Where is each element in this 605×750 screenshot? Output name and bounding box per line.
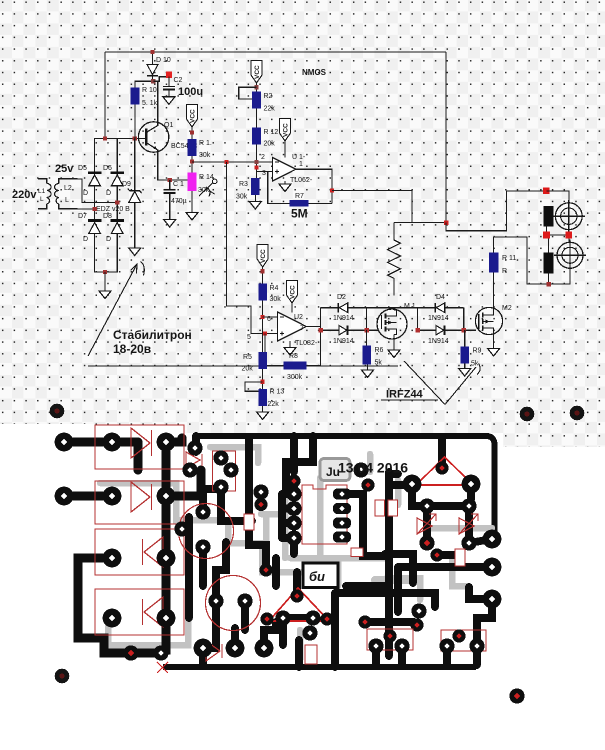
wire magnet2 top <box>548 238 550 252</box>
junction R2 top <box>254 85 258 89</box>
svg-text:18-20в: 18-20в <box>113 342 151 356</box>
ground below U2 <box>284 341 296 355</box>
trace row1 to border <box>166 438 182 442</box>
pad above r4 <box>302 625 317 640</box>
diode rect outline 3 <box>95 529 184 575</box>
pad D2 <box>157 609 176 628</box>
wire magnet2 bottom <box>548 272 550 284</box>
svg-text:30k: 30k <box>199 152 211 159</box>
trace row2 to mid <box>166 470 201 496</box>
svg-text:R7: R7 <box>295 193 304 200</box>
svg-text:U 1-: U 1- <box>292 154 306 161</box>
speaker magnet bar 2 <box>544 252 554 273</box>
IC pad l4 <box>286 530 301 545</box>
wire R2 to R12 <box>256 109 258 128</box>
svg-text:5k: 5k <box>375 360 383 367</box>
trace red pad link <box>437 551 459 559</box>
power resistor zigzag <box>388 223 401 296</box>
trace right mid elbow <box>385 554 413 583</box>
red triangle tr pad c <box>462 475 481 494</box>
mosfet M1 <box>377 309 407 339</box>
diode D6 <box>110 171 124 185</box>
trace arrow1 column <box>423 506 431 543</box>
wire bridge bottom to ground <box>104 272 106 291</box>
PCB <box>0 424 95 434</box>
transformer T1 secondary L2 <box>54 179 77 209</box>
junction speakers mid left <box>543 232 550 239</box>
gray logo drop <box>335 558 342 586</box>
diode symbol row2 <box>131 482 152 512</box>
resistor R4 <box>258 284 267 301</box>
gray staircase left <box>100 483 338 572</box>
svg-text:5. 1k: 5. 1k <box>142 100 158 107</box>
wire D4 right vertical <box>463 308 465 331</box>
trace bottom pad3 riser <box>264 558 276 645</box>
isolated pad bottom right <box>509 688 524 703</box>
svg-text:EDZ v20 B: EDZ v20 B <box>96 206 130 213</box>
wire U2 output <box>306 326 320 328</box>
diode outline rect 1 <box>95 425 184 469</box>
board bottom border <box>163 664 476 670</box>
bottom right rect1 <box>367 629 413 650</box>
red x marker <box>157 662 168 673</box>
pad tm3 <box>213 479 228 494</box>
transistor circle 2 <box>206 576 261 631</box>
wire pin5 from chain <box>227 162 278 334</box>
svg-text:IRFZ44: IRFZ44 <box>386 389 424 401</box>
resistor R9 <box>460 346 469 363</box>
svg-text:20k: 20k <box>242 366 254 373</box>
IC pad r3 <box>333 518 351 529</box>
junction secondary top <box>115 201 119 205</box>
trace small diode pair <box>131 649 161 658</box>
wire D9 vertical <box>134 139 136 191</box>
IC pad l3 <box>286 515 301 530</box>
wire pin3 horizontal <box>257 171 273 173</box>
red diode top mid <box>186 452 202 468</box>
potentiometer R14 <box>188 173 197 192</box>
junction bridge top <box>103 137 107 141</box>
wire R10 bottom <box>134 104 136 138</box>
junction C1 <box>168 178 172 182</box>
wire D2b bottom row <box>321 329 379 331</box>
vcc tag above U1 <box>280 119 291 158</box>
resistor R13 <box>258 389 267 406</box>
diode outline rect 2 <box>95 481 184 524</box>
trace triangle base <box>283 614 313 622</box>
svg-text:NMOS: NMOS <box>302 68 327 77</box>
junction D10 bottom <box>151 79 155 83</box>
wire M1 source <box>393 335 395 351</box>
trace right column chain <box>161 442 166 650</box>
isolated donut top left <box>50 404 65 419</box>
pad below arrow1 <box>419 535 434 550</box>
vcc tag above R4 <box>257 245 268 284</box>
trace row2 feed <box>64 492 112 501</box>
svg-text:L: L <box>40 196 44 203</box>
bridge rectangle wire <box>95 139 118 273</box>
pad tm1 <box>213 450 228 465</box>
op-amp U2 <box>278 312 307 341</box>
pad below arrow2 <box>461 535 476 550</box>
junction R3 top <box>254 165 258 169</box>
big right pads column 1 <box>483 530 502 549</box>
bottom pad row 1 <box>194 639 213 658</box>
pad tr1b <box>174 521 189 536</box>
ground below R14 <box>186 213 198 221</box>
isolated pad right top b <box>570 406 585 421</box>
red arrow diode 2 <box>459 514 478 534</box>
ground below M2 <box>488 349 500 357</box>
svg-text:D5: D5 <box>78 165 87 172</box>
diode D4a <box>435 303 444 313</box>
bottom pad row 3 <box>255 639 274 658</box>
gray right horiz <box>387 578 420 600</box>
small part red rect r3 <box>351 548 363 557</box>
wire feedback pin3 <box>268 172 290 204</box>
trace circle2 left leg <box>203 604 216 648</box>
wire loop around R2 top <box>239 87 257 99</box>
wire secondary top to bridge <box>78 179 118 203</box>
trace border drop left <box>192 436 200 452</box>
red arrow diode 1 <box>417 514 436 534</box>
svg-text:3: 3 <box>262 170 266 177</box>
gray ic top <box>367 454 374 472</box>
trace row1 stub down <box>134 443 143 470</box>
wire D9 to ground <box>134 202 136 248</box>
logo box <box>303 563 338 588</box>
diode D2a <box>338 303 347 313</box>
svg-text:R 10: R 10 <box>142 87 157 94</box>
ground below C2 <box>163 97 175 105</box>
stabilitron arrow <box>88 262 144 357</box>
trace tr right drop <box>467 484 475 500</box>
pad C2 <box>103 549 122 568</box>
IC pad r1 <box>333 489 351 500</box>
grid dots <box>0 0 605 433</box>
junction bottom speaker <box>546 282 551 287</box>
wire collector vertical <box>157 81 159 123</box>
pad B3 <box>157 487 176 506</box>
pad border end <box>187 440 202 455</box>
wire R6 top <box>366 330 368 346</box>
resistor R8 <box>284 361 307 369</box>
trace row1 feed <box>64 438 138 447</box>
diode D5 <box>88 171 102 185</box>
svg-text:R 12: R 12 <box>264 129 279 136</box>
IC pad l1 <box>286 486 301 501</box>
svg-text:D: D <box>106 190 111 197</box>
pad A2 <box>103 433 122 452</box>
svg-text:U2: U2 <box>294 314 303 321</box>
gray bottom mid <box>297 630 304 660</box>
gray right upper <box>395 480 402 505</box>
gray top mid <box>210 447 258 463</box>
gray bottom-layer traces <box>100 447 492 660</box>
diode D4b <box>436 325 445 335</box>
br rect2 pad c <box>452 629 465 642</box>
junction D4 right <box>462 328 466 332</box>
resistor R11 <box>489 252 499 272</box>
trace circle2 right leg <box>241 604 249 630</box>
svg-text:D6: D6 <box>103 165 112 172</box>
svg-text:R 1.: R 1. <box>199 140 212 147</box>
wire D2 right vertical <box>366 308 368 331</box>
pad D1 <box>103 609 122 628</box>
zener D9 <box>128 189 142 203</box>
svg-text:D2: D2 <box>337 294 346 301</box>
junction node x256 <box>254 160 258 164</box>
gray ic vertical <box>317 478 324 558</box>
br rect1 pad a <box>368 638 383 653</box>
resistor R6 <box>362 346 371 365</box>
wire R5 to R13 <box>262 369 264 389</box>
trace bottom pads stubs <box>199 648 207 665</box>
trace bottom T horizontal <box>283 593 435 645</box>
red triangle top right <box>416 457 473 485</box>
svg-text:L1: L1 <box>38 188 46 195</box>
svg-text:R6: R6 <box>375 347 384 354</box>
pad right r1 <box>419 498 434 513</box>
red triangle bottom pad e <box>320 612 333 625</box>
diode D2b <box>339 325 348 335</box>
svg-text:22k: 22k <box>264 106 276 113</box>
bottom pad row 2 <box>226 639 245 658</box>
junction base wire <box>133 137 137 141</box>
main traces <box>64 438 201 653</box>
svg-text:30k: 30k <box>198 187 210 194</box>
resistor R5 <box>258 352 267 369</box>
small diode pad1 <box>123 645 138 660</box>
wire emitter down <box>158 152 192 180</box>
red triangle bottom pad c <box>305 610 320 625</box>
svg-text:M 1: M 1 <box>404 303 416 310</box>
svg-text:20k: 20k <box>264 141 276 148</box>
resistor R10 <box>131 87 140 104</box>
wire D4b bottom row <box>418 329 476 331</box>
diode rect outline 2 <box>95 481 184 524</box>
stub ic pin4 <box>282 538 294 554</box>
wire speakers bottom <box>494 237 570 284</box>
svg-text:22k: 22k <box>268 401 280 408</box>
svg-text:5: 5 <box>247 334 251 341</box>
junction D2 right <box>364 328 368 332</box>
svg-text:1: 1 <box>299 161 303 168</box>
IC top red pad <box>287 474 300 487</box>
trace arrow2 column <box>469 506 492 543</box>
diode D7 <box>88 219 102 233</box>
wire D10 node to C2 <box>153 77 169 82</box>
lamp symbol 2 <box>554 240 586 272</box>
trace mid left vertical <box>249 439 266 566</box>
svg-text:13.04 2016: 13.04 2016 <box>338 460 408 476</box>
svg-text:R2: R2 <box>264 93 273 100</box>
svg-text:Стабилитрон: Стабилитрон <box>113 328 192 342</box>
pad C3 <box>157 549 176 568</box>
svg-text:R4: R4 <box>270 285 279 292</box>
ground below bridge <box>99 291 111 299</box>
trace mid right horiz <box>398 563 492 571</box>
junction output node <box>330 188 334 192</box>
stub ic pin3 <box>282 519 294 527</box>
trace mid long vertical <box>185 517 193 618</box>
gray right long <box>430 525 492 532</box>
svg-text:D: D <box>83 236 88 243</box>
svg-text:30k: 30k <box>236 194 248 201</box>
trace circle1 bottom chain <box>203 542 226 598</box>
IC pad r2 <box>333 503 351 514</box>
big right pad 2 <box>483 558 502 577</box>
junction C2 red square <box>166 72 172 78</box>
br rect2 pad b <box>469 638 484 653</box>
IC outline <box>302 485 347 544</box>
date label box <box>320 459 350 481</box>
red triangle bottom pad d <box>260 612 273 625</box>
br rect1 pad b <box>394 638 409 653</box>
transistor Q1 <box>138 122 168 152</box>
wire loop around R13 top <box>245 382 263 391</box>
wire R14 bottom <box>191 191 193 213</box>
diode rect outline 4 <box>95 589 184 635</box>
trace circle1 top chain <box>203 489 218 512</box>
red triangle bottom pad a <box>290 589 303 602</box>
SCHEMATIC <box>105 52 446 223</box>
trace ic right vertical <box>351 494 385 556</box>
resistor R12 <box>252 128 261 145</box>
svg-text:R 11: R 11 <box>502 255 516 262</box>
svg-text:2: 2 <box>261 154 265 161</box>
trace bottom pad2 stub <box>231 628 239 648</box>
wire R9 top <box>464 330 466 346</box>
svg-text:D: D <box>83 190 88 197</box>
gray bottom left <box>108 620 188 645</box>
svg-text:1N914: 1N914 <box>333 315 354 322</box>
vcc tag above R2 <box>251 61 262 92</box>
svg-text:5k: 5k <box>471 361 479 368</box>
diode rect outline 1 <box>95 425 184 469</box>
stub ic pin1 <box>286 490 294 498</box>
junction R5 bottom <box>261 380 265 384</box>
pad left mid red <box>254 498 267 511</box>
svg-text:D9: D9 <box>122 181 131 188</box>
trace row3 left loop <box>78 558 131 653</box>
junction node x226 <box>224 160 228 164</box>
svg-text:би: би <box>309 569 325 584</box>
wire bridge to Q1 base <box>117 138 145 140</box>
svg-text:R8: R8 <box>289 353 298 360</box>
junction secondary bottom <box>93 207 97 211</box>
diode D8 <box>110 219 124 233</box>
resistor R1 <box>188 139 197 156</box>
ground below R9 <box>459 364 471 376</box>
svg-text:L: L <box>65 197 69 204</box>
svg-text:R 14: R 14 <box>199 174 214 181</box>
pad B2 <box>103 487 122 506</box>
svg-text:C2: C2 <box>174 77 183 84</box>
diode outline rect 3 <box>95 529 184 575</box>
small diode outline <box>206 641 222 661</box>
junction speaker top red <box>543 187 550 194</box>
svg-text:220v: 220v <box>12 189 37 201</box>
pot R14 arrow <box>199 179 217 196</box>
IC pad l2 <box>286 501 301 516</box>
isolated pad right top <box>520 407 535 422</box>
svg-text:D7: D7 <box>78 213 87 220</box>
wire R11 bottom to M2 <box>493 273 495 308</box>
junction pin6 node <box>261 315 265 319</box>
ground below D9 <box>129 248 141 256</box>
wire feedback loop <box>265 334 284 366</box>
pad right r2 <box>461 498 476 513</box>
svg-text:R9: R9 <box>473 348 482 355</box>
speaker magnet bar 1 <box>544 206 554 227</box>
long underline <box>88 365 398 367</box>
wire node to pin2 <box>192 161 273 163</box>
pad red low2 <box>410 618 423 631</box>
big right pad 3 <box>483 590 502 609</box>
ground below R6 <box>362 365 374 378</box>
small part red rect mid <box>244 514 254 530</box>
wire R8 right <box>307 308 321 366</box>
junction R4 top <box>261 269 265 273</box>
transformer T1 primary L1 <box>38 179 51 209</box>
red triangle bottom <box>269 588 329 621</box>
svg-text:Q1: Q1 <box>164 122 173 129</box>
wire R12 to node <box>256 145 258 178</box>
gray mid wide <box>290 555 390 562</box>
pad mid stub <box>353 462 368 477</box>
svg-text:TL082-: TL082- <box>295 340 318 347</box>
ground below R13 <box>257 406 269 420</box>
red triangle tr pad b <box>403 475 422 494</box>
irfz44 underline <box>381 399 438 401</box>
svg-text:5M: 5M <box>291 207 308 221</box>
pad left mid a <box>253 484 268 499</box>
lamp symbol 1 <box>553 200 585 232</box>
capacitor C1 <box>164 180 176 220</box>
capacitor C2 <box>163 77 175 97</box>
isolated donut bottom left <box>55 669 70 684</box>
wire top horizontal <box>105 51 446 53</box>
wire top left vertical <box>104 52 106 139</box>
svg-text:470µ: 470µ <box>171 198 187 205</box>
trace out small <box>469 587 492 640</box>
trace ic notch drop <box>286 436 442 494</box>
wire R4 to R5 chain <box>262 301 264 352</box>
pads right of ic <box>361 478 374 491</box>
wire U1 output <box>296 169 332 203</box>
wire M2 source <box>493 334 495 349</box>
svg-text:7: 7 <box>300 325 304 332</box>
svg-text:30k: 30k <box>270 296 282 303</box>
junction R1 top <box>190 130 194 134</box>
wire pin6 <box>263 316 278 318</box>
trace mid horiz <box>346 586 414 622</box>
trace bottom right U <box>376 646 477 665</box>
svg-text:100u: 100u <box>178 86 203 98</box>
red triangle tr pad a <box>435 461 448 474</box>
pad red low <box>358 615 371 628</box>
trace bottom mid vertical <box>295 640 303 667</box>
diode symbol row1 <box>131 428 152 458</box>
wire secondary bottom to bridge <box>78 208 95 210</box>
svg-text:R 13: R 13 <box>270 389 285 396</box>
svg-text:D 10: D 10 <box>156 57 171 64</box>
svg-text:R5: R5 <box>243 354 252 361</box>
svg-text:1N914: 1N914 <box>333 338 354 345</box>
bottom right rect2 <box>441 630 486 651</box>
resistor R2 <box>252 92 261 109</box>
